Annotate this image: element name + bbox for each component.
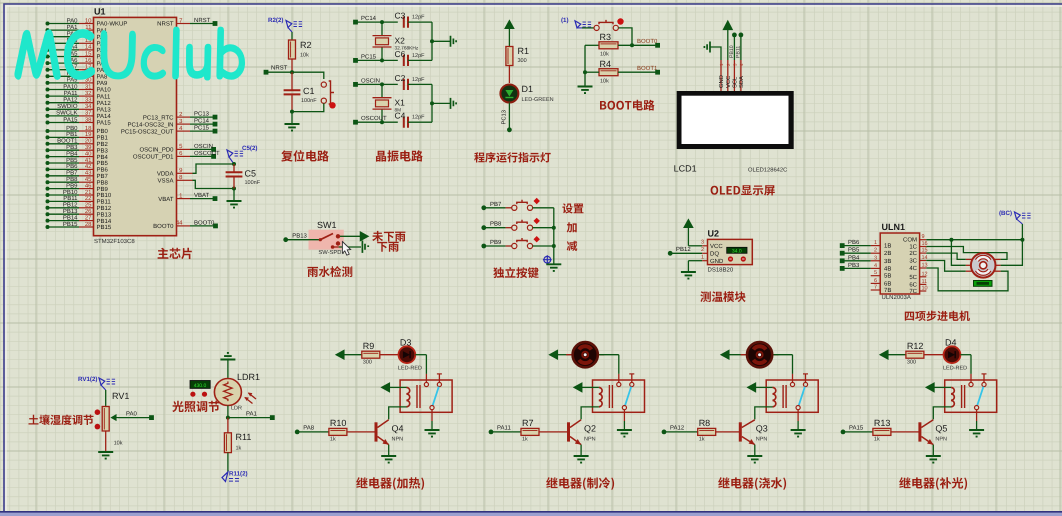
wire COM bus: [926, 239, 1022, 241]
svg-text:6B: 6B: [884, 280, 891, 287]
svg-text:46: 46: [85, 182, 92, 189]
node R3 right: [630, 43, 634, 47]
svg-text:NPN: NPN: [584, 437, 596, 443]
wire lamp coil to collector: [933, 407, 951, 420]
svg-text:STM32F103C8: STM32F103C8: [94, 238, 135, 245]
wire VSSA to C5 bottom: [193, 180, 235, 188]
svg-text:U1: U1: [94, 7, 106, 17]
pin PB15 (28) row: [46, 225, 50, 229]
ULN pin 7C: [920, 290, 927, 292]
wire PB8 to bus: [533, 227, 554, 229]
ground (reset): [285, 124, 300, 131]
caption heater: [356, 477, 424, 490]
ULN pin 4C: [920, 267, 927, 269]
wire node to ground: [291, 112, 293, 124]
svg-text:R7: R7: [522, 418, 534, 428]
svg-text:NPN: NPN: [935, 437, 947, 443]
wire Q4 emitter to ground: [388, 445, 390, 456]
pin PA9 (30) row: [46, 81, 50, 85]
wire bus down: [584, 45, 586, 86]
pin PA2 (12) row: [46, 35, 50, 39]
relay cooler coil: [593, 386, 599, 388]
svg-text:LED-RED: LED-RED: [398, 366, 422, 372]
node NRST junction: [290, 70, 294, 74]
resistor R7: [521, 428, 539, 435]
ULN pin 6C: [920, 283, 927, 285]
svg-text:PC14: PC14: [361, 15, 377, 22]
wire PB4 to ULN: [842, 260, 871, 262]
node C5 top: [232, 162, 236, 166]
wire PA0: [118, 417, 152, 419]
svg-text:1C: 1C: [909, 244, 917, 251]
svg-text:PA10: PA10: [63, 83, 78, 90]
svg-text:NPN: NPN: [756, 437, 768, 443]
relay water coil: [766, 386, 772, 388]
svg-text:32: 32: [85, 90, 92, 97]
stepper display: [974, 281, 993, 287]
pin PB8 (45) row: [46, 180, 50, 184]
pin NRST (7) row: [177, 23, 191, 25]
svg-text:PB9: PB9: [97, 186, 109, 193]
node right bus mid: [430, 101, 434, 105]
svg-text:VSSA: VSSA: [157, 178, 173, 185]
svg-text:SCL: SCL: [731, 76, 738, 88]
wire xtal top: [381, 84, 383, 97]
svg-text:PA15: PA15: [63, 116, 78, 123]
caption reset circuit: [281, 150, 329, 162]
wire PA8 to R10: [297, 431, 329, 433]
U2 button 2: [741, 256, 746, 261]
svg-text:GND: GND: [718, 75, 725, 88]
ground (boot): [578, 87, 593, 94]
pin PA7 (17) row: [46, 68, 50, 72]
U2 pin VCC (3): [702, 245, 707, 247]
pin PA10 (31) row: [46, 88, 50, 92]
wire R4 left: [585, 71, 599, 73]
wire node to R11: [227, 418, 229, 433]
svg-text:R4: R4: [600, 59, 612, 69]
node keys PB8: [552, 226, 556, 230]
svg-text:22: 22: [85, 195, 92, 202]
svg-text:PB1: PB1: [66, 131, 78, 138]
pin PA12 (33) row: [46, 101, 50, 105]
power flag R11(2): [222, 472, 228, 482]
LED D3 LED-RED: [399, 346, 416, 363]
pin PA4 (14) row: [46, 48, 50, 52]
LDR1 sensor: [214, 379, 241, 406]
svg-text:PB14: PB14: [97, 218, 112, 225]
wire PC14 row: [356, 21, 398, 23]
svg-text:PB8: PB8: [490, 221, 502, 228]
wire PB3 to ULN: [842, 267, 871, 269]
pin PA11 (32) row: [46, 94, 50, 98]
wire PA12 to R8: [664, 431, 698, 433]
power arrow (heater top): [336, 350, 344, 359]
svg-text:PB15: PB15: [97, 224, 112, 231]
button PB8: [512, 225, 517, 230]
wire Q5 emitter to ground: [932, 445, 934, 456]
svg-text:ULN1: ULN1: [882, 222, 906, 232]
svg-text:PA8: PA8: [303, 425, 315, 432]
svg-text:BOOT0: BOOT0: [194, 219, 215, 226]
terminal PC15: [353, 58, 358, 63]
ground (keys): [546, 264, 561, 271]
pin PA8 (29) row: [46, 74, 50, 78]
svg-text:C2: C2: [395, 73, 406, 83]
resistor R8: [698, 428, 716, 435]
svg-text:RV1: RV1: [112, 391, 129, 401]
caption rain: [377, 242, 399, 252]
svg-text:LDR: LDR: [231, 406, 242, 412]
svg-text:LED-GREEN: LED-GREEN: [522, 97, 554, 103]
svg-text:NRST: NRST: [157, 21, 174, 28]
pin PA0 (10) row: [46, 22, 50, 26]
ground (U2): [681, 272, 696, 279]
relay cooler contacts: [618, 374, 620, 382]
ground (Q3 emitter): [747, 456, 762, 463]
wire gnd to GND pin: [711, 47, 722, 60]
capacitor C5: [233, 164, 235, 172]
caption light adjust: [172, 401, 219, 412]
wire D1 to PC13 terminal: [508, 103, 510, 130]
caption plus: [567, 222, 577, 232]
pin SWDIO (34) row: [46, 107, 50, 111]
svg-text:7: 7: [874, 285, 877, 291]
svg-text:12pF: 12pF: [412, 53, 425, 59]
terminal PA0 (soil): [149, 415, 154, 420]
svg-text:27: 27: [85, 214, 92, 221]
svg-text:10: 10: [922, 286, 928, 292]
ground (OLED): [704, 42, 710, 53]
svg-text:D4: D4: [945, 338, 957, 348]
svg-text:PB5: PB5: [66, 157, 78, 164]
U2 display: [727, 247, 747, 253]
svg-text:PB10: PB10: [729, 45, 735, 58]
svg-text:DS18B20: DS18B20: [708, 267, 734, 274]
svg-text:PC13: PC13: [501, 110, 508, 125]
wire R2 to NRST node: [291, 59, 293, 72]
svg-text:PA12: PA12: [63, 97, 78, 104]
relay cooler box: [593, 380, 645, 412]
svg-text:PB6: PB6: [97, 167, 109, 174]
wire power to RV1: [105, 390, 107, 407]
wire 2C to motor left-top: [926, 253, 966, 259]
svg-text:R2: R2: [300, 40, 312, 50]
transistor Q4 NPN: [375, 422, 378, 441]
caption soil moisture: [29, 415, 94, 426]
svg-text:9: 9: [922, 234, 925, 240]
svg-text:(1): (1): [561, 17, 569, 24]
svg-text:PA15: PA15: [849, 425, 864, 432]
power arrow (cooler coil): [574, 383, 582, 392]
terminal PB4 (stepper): [840, 258, 845, 263]
svg-text:40: 40: [85, 150, 92, 157]
resistor R2: [289, 40, 296, 59]
pin OSCIN (5) row: [177, 148, 191, 150]
OLED pin SCL: [733, 60, 735, 91]
svg-text:OSCIN_PD0: OSCIN_PD0: [139, 147, 174, 154]
OLED pin SDA: [740, 60, 742, 91]
wire NO contact to power: [340, 235, 360, 237]
stepper motor M1: [966, 258, 972, 260]
svg-text:3: 3: [874, 255, 877, 261]
transistor Q2 NPN: [567, 422, 570, 441]
caption stepper motor: [905, 311, 970, 321]
svg-text:U2: U2: [708, 229, 720, 239]
ULN pin COM: [920, 239, 927, 241]
power flag (BC): [1015, 212, 1021, 219]
node R4 left: [583, 70, 587, 74]
wire NC contact to ground: [339, 246, 361, 248]
svg-text:33: 33: [85, 97, 92, 104]
caption program run indicator: [474, 152, 551, 163]
svg-text:NRST: NRST: [271, 65, 288, 72]
wire power to button: [582, 27, 594, 29]
svg-text:C5(2): C5(2): [242, 145, 257, 152]
relay heater contacts: [425, 374, 427, 382]
svg-text:2: 2: [701, 247, 704, 253]
svg-text:19: 19: [85, 131, 92, 138]
wire R13 to Q5 base: [891, 431, 920, 433]
svg-text:7C: 7C: [909, 288, 917, 295]
capacitor C2: [404, 79, 408, 90]
relay heater coil: [400, 386, 406, 388]
svg-text:PB0: PB0: [66, 125, 78, 132]
svg-text:Q4: Q4: [392, 424, 404, 434]
svg-text:R3: R3: [600, 32, 612, 42]
transistor Q3 NPN: [739, 422, 742, 441]
svg-text:1B: 1B: [884, 243, 891, 250]
svg-text:PA15: PA15: [97, 120, 112, 127]
svg-text:42: 42: [85, 163, 92, 170]
svg-text:430.0: 430.0: [194, 383, 207, 389]
svg-text:16: 16: [85, 57, 92, 64]
wire PB9 to button: [484, 245, 506, 247]
ground (LDR top): [220, 353, 235, 360]
pin VDDA (9): [177, 172, 193, 174]
svg-text:BOOT1: BOOT1: [57, 138, 78, 145]
power flag R2(2): [286, 21, 292, 28]
origin marker (keys): [544, 256, 551, 263]
relay lamp coil: [945, 386, 951, 388]
svg-text:14: 14: [85, 44, 92, 51]
power arrow (water top): [721, 350, 729, 359]
svg-text:PB8: PB8: [97, 179, 109, 186]
ground (crystal X1): [451, 98, 457, 109]
wire LDR to node: [227, 406, 229, 418]
caption cooler: [546, 477, 614, 490]
svg-text:26: 26: [85, 208, 92, 215]
terminal PA8 (heater): [295, 430, 300, 435]
wire right bus: [431, 84, 433, 122]
pin PB1 (19) row: [46, 135, 50, 139]
svg-text:PB7: PB7: [97, 173, 109, 180]
caption minus: [567, 241, 578, 251]
fan motor (cooler): [566, 354, 572, 356]
svg-text:PB13: PB13: [292, 232, 307, 239]
svg-text:37: 37: [85, 110, 92, 117]
wire R10 to Q4 base: [347, 431, 376, 433]
svg-text:R9: R9: [363, 341, 375, 351]
ground (Q4 emitter): [381, 456, 396, 463]
svg-text:BOOT0: BOOT0: [153, 223, 174, 230]
U2 button 1: [728, 256, 733, 261]
svg-text:1k: 1k: [874, 437, 880, 443]
pot RV1 wiper: [112, 415, 119, 420]
mouse cursor: [342, 242, 350, 256]
wire relay lamp common to ground: [976, 410, 978, 421]
ULN pin 1B: [871, 245, 881, 247]
resistor R12: [906, 351, 924, 358]
wire PB7 to bus: [533, 207, 554, 209]
svg-text:PA0-WKUP: PA0-WKUP: [97, 21, 128, 28]
svg-text:OSCOUT_PD1: OSCOUT_PD1: [133, 154, 174, 161]
svg-text:15: 15: [85, 50, 92, 57]
svg-text:45: 45: [85, 176, 92, 183]
svg-text:PA11: PA11: [497, 425, 511, 432]
button PB7: [512, 205, 517, 210]
svg-text:PB3: PB3: [97, 147, 109, 154]
chip ULN1 body: [880, 233, 919, 294]
caption water: [718, 477, 786, 490]
svg-text:PB4: PB4: [66, 150, 78, 157]
wire C5 to ground: [233, 189, 235, 202]
wire xtal bottom: [381, 48, 383, 61]
resistor R1: [506, 47, 513, 66]
svg-text:PB2: PB2: [97, 141, 109, 148]
svg-text:12: 12: [922, 271, 928, 277]
power arrow (no rain): [360, 232, 368, 241]
ground (Q5 emitter): [926, 456, 941, 463]
wire D3 to relay: [415, 354, 426, 356]
svg-text:28: 28: [85, 221, 92, 228]
svg-text:10k: 10k: [600, 79, 609, 85]
pot RV1 body: [102, 407, 109, 432]
wire PA1: [228, 417, 272, 419]
svg-text:PC15: PC15: [194, 125, 210, 132]
svg-text:2: 2: [874, 248, 877, 254]
node OSCIN: [380, 82, 384, 86]
U2 pin DQ (2): [670, 252, 702, 254]
svg-text:PB11: PB11: [97, 199, 112, 206]
svg-text:1: 1: [874, 240, 877, 246]
wire R8 to Q3 base: [716, 431, 741, 433]
node PC14: [380, 20, 384, 24]
svg-text:PB7: PB7: [490, 201, 502, 208]
svg-text:300: 300: [518, 58, 527, 64]
svg-text:4: 4: [874, 263, 877, 269]
svg-text:PB9: PB9: [490, 239, 502, 246]
crystal X1: [373, 98, 392, 109]
relay water box: [766, 380, 818, 412]
svg-text:PA14: PA14: [97, 113, 112, 120]
svg-text:39: 39: [85, 144, 92, 151]
svg-text:2C: 2C: [909, 250, 917, 257]
svg-text:1k: 1k: [522, 437, 528, 443]
node PC15: [380, 58, 384, 62]
node keys PB9: [552, 244, 556, 248]
terminal PA11 (cooler): [489, 430, 494, 435]
svg-text:10: 10: [85, 17, 92, 24]
pin VSSA (8): [177, 179, 193, 181]
svg-text:X2: X2: [395, 35, 406, 45]
OLED pin GND: [720, 60, 722, 91]
svg-text:PA1: PA1: [67, 24, 79, 31]
ULN pin 1C: [920, 246, 927, 248]
svg-text:GND: GND: [710, 258, 724, 265]
pin PB0 (18) row: [46, 129, 50, 133]
svg-text:NPN: NPN: [392, 437, 404, 443]
capacitor C4: [404, 117, 408, 128]
svg-text:5B: 5B: [884, 273, 891, 280]
terminal PA12 (water): [662, 430, 667, 435]
pin OSCOUT (6) row: [177, 155, 191, 157]
svg-text:1k: 1k: [236, 446, 242, 452]
node C1 bottom: [290, 110, 294, 114]
svg-text:PC14-OSC32_IN: PC14-OSC32_IN: [127, 121, 173, 128]
svg-text:PB11: PB11: [736, 46, 742, 58]
terminal NRST: [264, 70, 269, 75]
selection highlight: [309, 230, 344, 250]
power flag C5(2): [227, 150, 233, 157]
svg-text:C6: C6: [395, 49, 406, 59]
pin PB11 (22) row: [46, 199, 50, 203]
capacitor C3: [404, 17, 408, 28]
terminal PA15 (lamp): [841, 430, 846, 435]
svg-text:PA9: PA9: [97, 80, 109, 87]
svg-text:100nF: 100nF: [245, 180, 261, 186]
wire VDDA to C5 top: [193, 164, 235, 173]
svg-text:PC15: PC15: [361, 53, 377, 60]
relay water contacts: [792, 374, 794, 382]
svg-text:PA1: PA1: [246, 411, 258, 418]
wire gnd to LDR: [227, 360, 229, 379]
terminal PC13 (indicator): [507, 127, 512, 132]
svg-text:PC14: PC14: [194, 118, 210, 125]
pin PC14 (3) row: [177, 123, 191, 125]
wire R4 to BOOT1 terminal: [618, 71, 658, 73]
svg-text:5: 5: [874, 270, 877, 276]
terminal PB5 (stepper): [840, 251, 845, 256]
ULN pin 4B: [871, 267, 881, 269]
svg-text:1k: 1k: [330, 437, 336, 443]
svg-text:2B: 2B: [884, 250, 891, 257]
svg-text:PB13: PB13: [97, 211, 112, 218]
svg-text:R11: R11: [236, 432, 252, 442]
svg-text:PB0: PB0: [97, 128, 109, 135]
button RESET (vertical): [321, 82, 326, 87]
ground (C5): [227, 201, 242, 208]
svg-text:R10: R10: [330, 418, 347, 428]
svg-text:SWCLK: SWCLK: [56, 110, 77, 117]
svg-text:SWDIO: SWDIO: [57, 103, 78, 110]
svg-text:VCC: VCC: [725, 76, 732, 88]
resistor R11: [224, 433, 231, 453]
ULN pin 5B: [871, 275, 881, 277]
ground (crystal X2): [451, 36, 457, 47]
wire button to R3 node: [618, 28, 632, 45]
ULN pin 3B: [871, 260, 881, 262]
wire motor to relay: [599, 354, 619, 356]
svg-text:LED-RED: LED-RED: [943, 366, 967, 372]
svg-text:PC15-OSC32_OUT: PC15-OSC32_OUT: [121, 128, 174, 135]
chip U2 body: [708, 239, 753, 264]
svg-text:PB15: PB15: [63, 221, 78, 228]
LED D1 LED-GREEN: [500, 85, 518, 103]
wire 1C to motor right-top: [926, 247, 1007, 260]
svg-text:DQ: DQ: [710, 251, 719, 258]
svg-text:11: 11: [922, 279, 928, 285]
